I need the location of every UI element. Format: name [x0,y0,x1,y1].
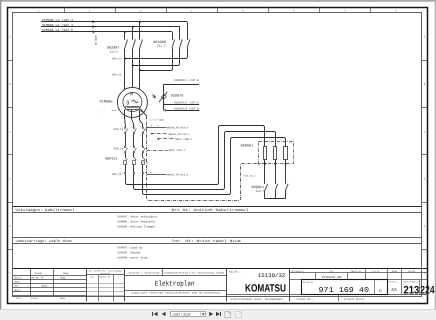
svg-text:3: 3 [181,38,182,41]
svg-text:A3: A3 [391,288,397,293]
svg-text:StM907: Motor Aufwickeln: StM907: Motor Aufwickeln [117,215,157,219]
svg-text:Name: Name [60,297,66,300]
svg-text:PC5500-6E: PC5500-6E [322,276,343,279]
svg-text:4: 4 [181,49,182,52]
svg-text:Unterwagen: Kabeltrommel: Unterwagen: Kabeltrommel [16,208,75,213]
svg-text:9K8_94: 9K8_94 [114,147,124,150]
svg-text:212.6: 212.6 [110,50,119,53]
svg-text:M: M [130,92,133,98]
svg-text:224: 224 [420,284,435,296]
svg-text:5: 5 [141,38,142,41]
svg-text:StM906_L2 /107.4: StM906_L2 /107.4 [42,23,73,27]
svg-text:StM906: StM906 [100,100,113,105]
svg-text:5: 5 [287,181,288,184]
svg-text:9K935_PE/214.5: 9K935_PE/214.5 [169,133,191,136]
svg-text:Bau.Nr.:: Bau.Nr.: [229,270,240,273]
svg-text:Copyright reserved (Schutzverm: Copyright reserved (Schutzvermerk DIN 34… [131,292,220,295]
svg-text:StM906_L3 /107.4: StM906_L3 /107.4 [42,18,73,22]
svg-text:3: 3 [131,126,132,129]
svg-text:4: 4 [134,49,135,52]
svg-text:8635: 8635 [42,285,49,288]
svg-text:1: 1 [173,38,174,41]
svg-text:212.5: 212.5 [157,45,166,48]
svg-text:Zust.: Zust. [16,297,23,300]
svg-text:Datum: Datum [31,297,38,300]
svg-text:StM906: Unwind: StM906: Unwind [117,251,140,255]
svg-text:1: 1 [267,181,268,184]
svg-text:Ort 91: Antrieb Kabeltrommel: Ort 91: Antrieb Kabeltrommel [172,208,249,213]
svg-text:3: 3 [134,38,135,41]
svg-text:2097 / 2108: 2097 / 2108 [173,313,191,317]
svg-text:918979/3 /207.5: 918979/3 /207.5 [174,108,199,111]
svg-text:6: 6 [140,134,141,137]
svg-text:918979/2 /207.6: 918979/2 /207.6 [174,101,199,104]
svg-text:2: 2 [122,134,123,137]
svg-text:96F911: 96F911 [105,157,118,162]
svg-text:9K8_91: 9K8_91 [94,36,97,46]
svg-text:StM906: Antrieb Trommel: StM906: Antrieb Trommel [117,225,155,229]
svg-text:212.7: 212.7 [256,190,265,193]
svg-text:Name: Name [63,272,69,275]
svg-text:1: 1 [126,38,127,41]
svg-text:Computererstellte Zeichnung (C: Computererstellte Zeichnung (CAD) [165,271,226,274]
svg-text:3: 3 [126,100,130,107]
svg-text:9KPE /212.2: 9KPE /212.2 [169,149,186,152]
svg-text:9K8_91: 9K8_91 [112,58,122,61]
svg-text:90R901: 90R901 [241,144,254,149]
svg-text:Blatt/Blätter: Blatt/Blätter [404,281,420,284]
svg-text:5: 5 [140,126,141,129]
svg-text:5: 5 [189,38,190,41]
svg-text:3: 3 [277,181,278,184]
svg-text:5: 5 [140,145,141,148]
svg-text:6: 6 [140,153,141,156]
svg-text:1.1.5*(gn): 1.1.5*(gn) [150,119,166,122]
svg-text:4: 4 [131,134,132,137]
svg-text:Akt.: Akt. [14,285,20,288]
svg-text:StM906: Motor Abwickeln: StM906: Motor Abwickeln [117,220,155,224]
svg-text:918979: 918979 [171,93,184,98]
svg-text:Name: Name [392,270,398,273]
svg-text:Ersetzt durch:: Ersetzt durch: [344,298,365,301]
svg-text:" _ ": " _ " [98,110,106,113]
svg-text:9K8_93: 9K8_93 [112,73,122,76]
svg-text:Norm: Norm [14,289,20,292]
svg-text:6: 6 [189,49,190,52]
svg-text:Elektroplan: Elektroplan [155,280,195,289]
svg-text:9KPE /208.1: 9KPE /208.1 [176,138,193,141]
svg-text:2: 2 [173,49,174,52]
svg-text:Datum: Datum [35,272,43,275]
svg-text:Ident.Nr.: Ident.Nr. [99,275,112,278]
svg-text:3: 3 [131,145,132,148]
svg-text:9KA_96_A: 9KA_96_A [244,174,256,177]
svg-text:4: 4 [277,192,278,195]
svg-text:Zeich.Nr.:: Zeich.Nr.: [303,281,316,284]
svg-text:KOMATSU: KOMATSU [245,282,286,294]
svg-text:918979/1 /207.6: 918979/1 /207.6 [174,79,199,82]
svg-text:Ident.Nr.: Ident.Nr. [351,270,363,273]
svg-text:c: c [379,288,382,294]
svg-text:StM906: motor drum: StM906: motor drum [117,256,147,260]
svg-text:Prf.Nr: Prf.Nr [372,270,380,273]
svg-text:Gepr.: Gepr. [14,281,21,284]
svg-text:StM906_L1 /107.5: StM906_L1 /107.5 [42,28,73,32]
svg-text:2: 2 [126,49,127,52]
svg-text:Mag: Mag [61,277,66,280]
svg-text:Format: Format [389,281,397,284]
svg-text:9K8_93: 9K8_93 [114,128,124,131]
svg-text:2: 2 [267,192,268,195]
svg-text:9K8_96: 9K8_96 [112,173,122,176]
svg-text:loc. 91: drive cabel drum: loc. 91: drive cabel drum [172,239,241,244]
svg-text:6: 6 [287,192,288,195]
svg-text:213: 213 [404,284,420,296]
svg-text:Ersatz für:: Ersatz für: [297,298,314,301]
svg-text:Datum: Datum [408,270,415,273]
svg-text:undercarriage: cable drum: undercarriage: cable drum [16,239,72,244]
svg-text:StM907: wind up: StM907: wind up [117,246,142,250]
svg-text:15130/32: 15130/32 [258,272,286,279]
svg-text:2: 2 [122,153,123,156]
svg-text:971 169 40: 971 169 40 [319,287,370,295]
svg-text:4: 4 [131,153,132,156]
svg-text:Entstanden aus: 95309569: Entstanden aus: 95309569 [231,298,284,301]
svg-text:t: t [118,275,119,278]
svg-text:04.05.15: 04.05.15 [32,277,45,280]
svg-text:9K926_PE/214.6: 9K926_PE/214.6 [167,126,189,129]
svg-text:Bearb.: Bearb. [14,277,23,280]
svg-text:Vordruck f. Schaltpläne: Vordruck f. Schaltpläne [129,271,161,274]
svg-text:6: 6 [141,49,142,52]
svg-text:9K937_PE/214.6: 9K937_PE/214.6 [167,174,189,177]
